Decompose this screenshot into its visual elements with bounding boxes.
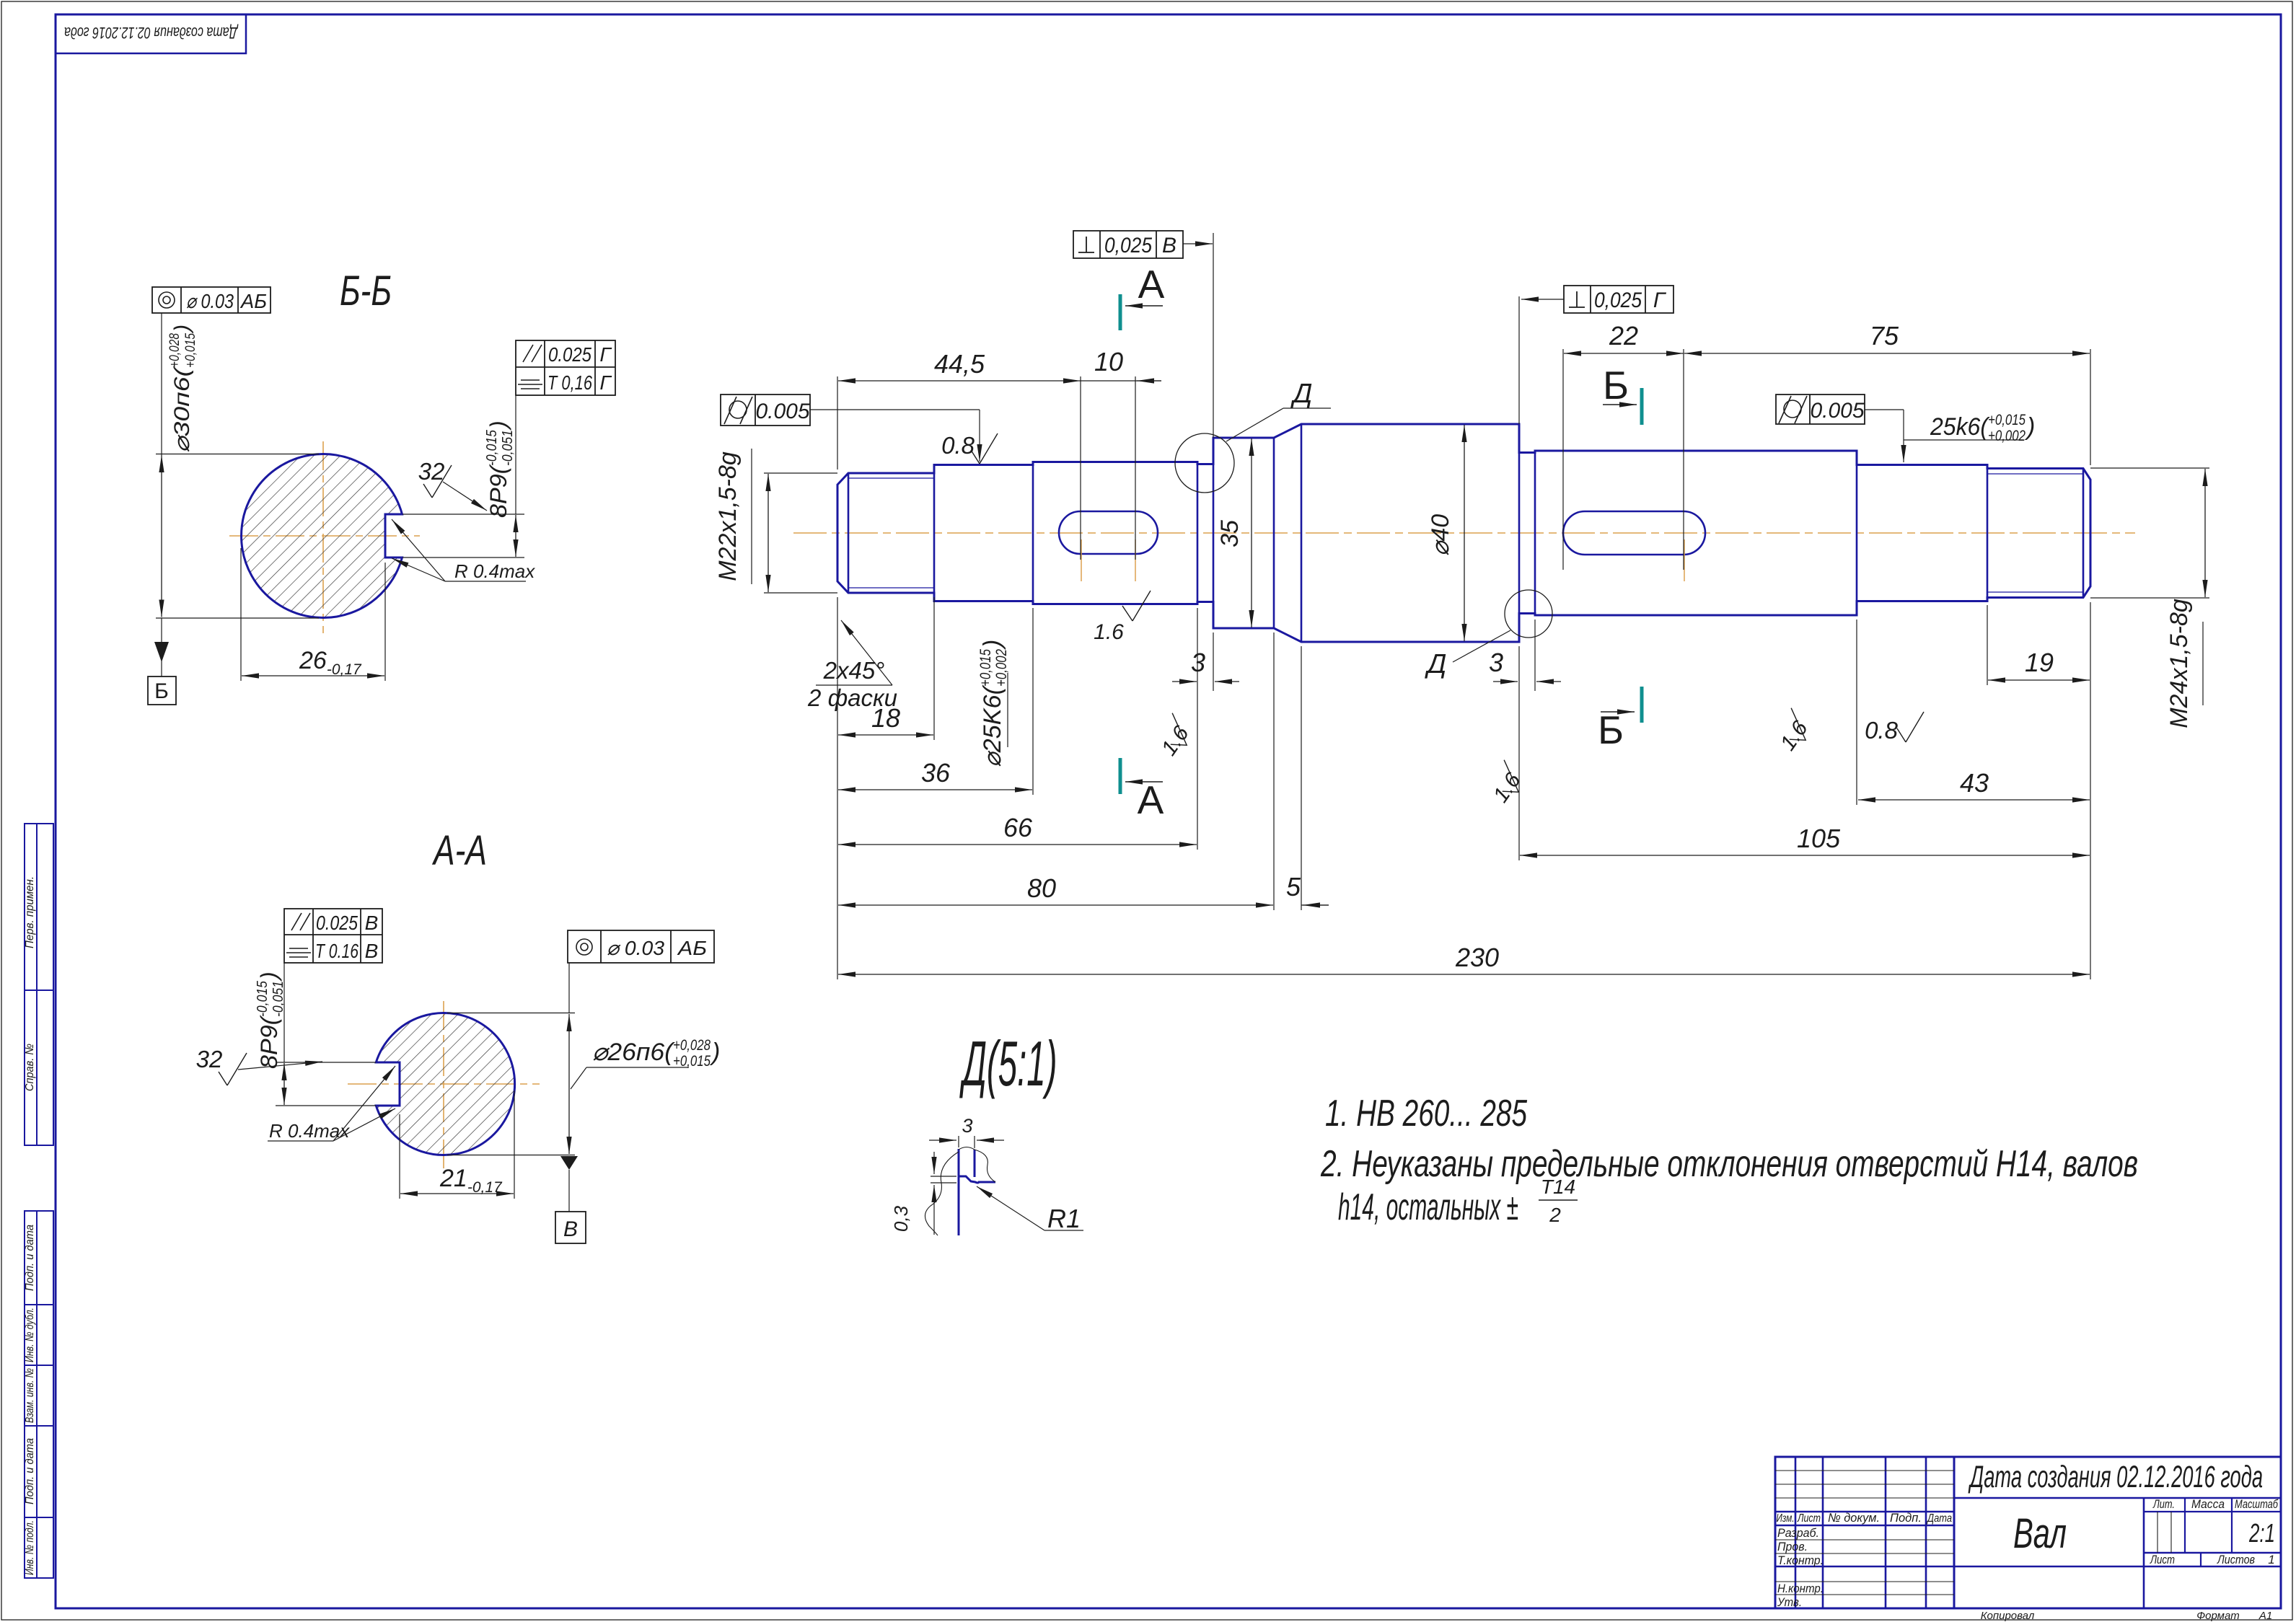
svg-text:+0,028: +0,028	[167, 333, 182, 368]
svg-text:18: 18	[871, 703, 900, 733]
svg-text:Б: Б	[1603, 363, 1629, 407]
label dia25K6 rotated	[977, 640, 1010, 767]
leader D2	[1453, 630, 1510, 662]
detail profile blue	[958, 1149, 960, 1235]
svg-text:0.025: 0.025	[316, 912, 358, 934]
svg-text:Н.контр.: Н.контр.	[1777, 1582, 1824, 1595]
svg-text:8P9(: 8P9(	[485, 463, 511, 518]
svg-text:+0,028: +0,028	[673, 1037, 711, 1054]
A-A concentricity frame	[568, 930, 714, 963]
svg-text:8P9(: 8P9(	[256, 1014, 282, 1069]
left margin field group 2	[25, 1211, 53, 1578]
svg-text:В: В	[365, 940, 379, 962]
svg-text:+0,015: +0,015	[183, 333, 198, 368]
label 25k6 with leader	[1865, 409, 1904, 410]
B-B datum box B	[148, 676, 176, 705]
keyway slot 1	[1059, 511, 1158, 554]
svg-text:-0,015: -0,015	[255, 980, 270, 1017]
svg-text:Инв. № подл.: Инв. № подл.	[24, 1520, 36, 1575]
dim 5	[1301, 904, 1329, 906]
svg-text:0.005: 0.005	[755, 400, 809, 423]
svg-text:Пров.: Пров.	[1777, 1540, 1808, 1553]
svg-text:66: 66	[1003, 813, 1033, 842]
dim 18	[838, 734, 933, 736]
dim 105	[1520, 855, 2090, 856]
B-B parallel/symmetry frames	[516, 340, 615, 395]
dim M22x1,5-8g	[767, 474, 769, 592]
svg-text:Лист: Лист	[2150, 1553, 2175, 1566]
B-B keyway width dim 8P9	[403, 514, 524, 515]
dim M24x1,5-8g	[2204, 469, 2206, 597]
svg-text:3: 3	[1489, 648, 1503, 677]
B-B datum triangle B	[154, 642, 169, 662]
dim 66	[838, 844, 1197, 845]
svg-text:19: 19	[2025, 648, 2054, 677]
dim dia40	[1464, 425, 1465, 641]
B-B centerlines	[229, 535, 420, 537]
svg-text:Подп.: Подп.	[1890, 1511, 1922, 1525]
dim 80	[838, 904, 1273, 906]
section mark A upper	[1119, 294, 1122, 330]
svg-text:0.8: 0.8	[1865, 717, 1899, 744]
svg-text:Листов: Листов	[2217, 1553, 2255, 1566]
svg-text:Д(5:1): Д(5:1)	[959, 1028, 1057, 1099]
svg-text:2x45°: 2x45°	[823, 657, 885, 684]
svg-text:Изм.: Изм.	[1777, 1512, 1795, 1525]
svg-text:3: 3	[962, 1115, 972, 1137]
svg-text:Д: Д	[1425, 649, 1447, 679]
detail dim 0,3	[931, 1176, 956, 1177]
thread minor diameter lines M22	[848, 477, 934, 479]
svg-text:⌀30п6(: ⌀30п6(	[170, 365, 194, 453]
svg-text:Б: Б	[1598, 708, 1624, 752]
svg-text:⌀ 0.03: ⌀ 0.03	[186, 290, 234, 312]
top-left document stamp box (rotated)	[56, 14, 246, 53]
slot centerline ticks	[1081, 539, 1082, 581]
A-A datum triangle V	[560, 1156, 578, 1170]
svg-text:1. НВ 260... 285: 1. НВ 260... 285	[1325, 1093, 1528, 1134]
svg-text:0,025: 0,025	[1104, 234, 1152, 257]
svg-text:25k6(: 25k6(	[1930, 413, 1990, 441]
svg-text:2:1: 2:1	[2248, 1518, 2275, 1548]
svg-text:Разраб.: Разраб.	[1777, 1526, 1819, 1540]
svg-text:Т14: Т14	[1541, 1176, 1575, 1198]
svg-text:А1: А1	[2258, 1610, 2272, 1622]
svg-text:⌀25K6(: ⌀25K6(	[979, 684, 1006, 767]
A-A label dia26p6	[592, 1037, 720, 1070]
svg-text:75: 75	[1870, 321, 1899, 351]
svg-text:32: 32	[418, 458, 445, 485]
svg-text:Инв. № дубл.: Инв. № дубл.	[24, 1308, 36, 1362]
svg-text:230: 230	[1455, 943, 1499, 972]
svg-text:0,025: 0,025	[1594, 288, 1642, 312]
roughness 1.6 on ext 2106	[1483, 760, 1529, 807]
A-A parallel/symmetry frames	[284, 909, 382, 963]
svg-text:Д: Д	[1290, 379, 1313, 409]
dim 75	[1684, 353, 2090, 354]
svg-text:Взам. инв. №: Взам. инв. №	[24, 1368, 36, 1423]
svg-text:Т.контр.: Т.контр.	[1777, 1553, 1824, 1567]
B-B section circle with keyway, hatched	[242, 454, 403, 617]
svg-text:Г: Г	[599, 343, 612, 366]
svg-text:⌀ 0.03: ⌀ 0.03	[607, 937, 664, 959]
svg-text:R1: R1	[1047, 1204, 1081, 1233]
section mark B lower	[1640, 687, 1644, 723]
svg-text:Г: Г	[1653, 288, 1667, 312]
svg-text:1.6: 1.6	[1094, 620, 1124, 644]
section mark A lower	[1119, 758, 1122, 794]
svg-text:Подп. и дата: Подп. и дата	[24, 1225, 36, 1291]
dim 44,5	[838, 380, 1081, 382]
svg-text:Перв. примен.: Перв. примен.	[24, 876, 36, 948]
svg-text:Вал: Вал	[2013, 1510, 2067, 1557]
B-B dia30p6 dimension	[156, 454, 319, 455]
svg-text:10: 10	[1094, 347, 1123, 376]
svg-text:80: 80	[1027, 873, 1056, 903]
svg-text:32: 32	[196, 1046, 223, 1072]
svg-text:-0,051: -0,051	[270, 981, 286, 1017]
svg-text:Б: Б	[154, 679, 169, 703]
svg-text:105: 105	[1797, 824, 1841, 853]
svg-text:1: 1	[2268, 1553, 2274, 1566]
detail break (wavy) lines	[925, 1152, 959, 1235]
A-A centerlines	[348, 1083, 540, 1085]
svg-text:АБ: АБ	[677, 937, 707, 959]
svg-text:Лит.: Лит.	[2152, 1497, 2175, 1511]
svg-text:Масса: Масса	[2191, 1497, 2225, 1511]
svg-text:T 0,16: T 0,16	[547, 371, 592, 394]
detail circle D1	[1175, 433, 1234, 493]
svg-text:Копировал: Копировал	[1981, 1610, 2035, 1622]
svg-text:Дата: Дата	[1926, 1512, 1952, 1525]
keyway slot 2	[1563, 511, 1705, 555]
svg-text:Дата создания 02.12.2016 года: Дата создания 02.12.2016 года	[1968, 1460, 2263, 1494]
svg-text:0,3: 0,3	[890, 1205, 912, 1232]
A-A dia26p6 dimension	[447, 1013, 575, 1014]
svg-text:43: 43	[1960, 768, 1989, 798]
dim 3 left groove	[1172, 681, 1197, 682]
svg-text:А: А	[1138, 777, 1164, 822]
svg-text:-0,015: -0,015	[484, 429, 500, 466]
left margin field group 1	[25, 824, 53, 1145]
svg-text:0.8: 0.8	[941, 432, 975, 459]
shaft outline	[837, 424, 2090, 642]
svg-text:Подп. и дата: Подп. и дата	[24, 1438, 36, 1504]
section mark B upper	[1640, 388, 1644, 425]
svg-text:-0,051: -0,051	[500, 430, 516, 466]
A-A section circle with keyway, hatched	[376, 1013, 514, 1155]
svg-text:Масштаб: Масштаб	[2235, 1497, 2279, 1511]
dim 3 right groove	[1493, 681, 1518, 682]
dim dia35	[1251, 438, 1252, 627]
svg-text:44,5: 44,5	[934, 349, 985, 379]
svg-text:⌀26п6(: ⌀26п6(	[592, 1039, 676, 1066]
A-A datum box V	[555, 1212, 586, 1243]
A-A dim 21	[399, 1114, 400, 1199]
svg-text:M22x1,5-8g: M22x1,5-8g	[714, 451, 742, 581]
svg-text:36: 36	[921, 758, 951, 788]
svg-text:0.005: 0.005	[1810, 399, 1864, 423]
detail dim 3	[974, 1136, 975, 1148]
dim 43	[1858, 799, 2090, 801]
B-B concentricity frame	[152, 287, 270, 313]
B-B label dia30p6 rotated	[167, 325, 198, 453]
svg-text:22: 22	[1609, 321, 1638, 351]
svg-text:h14, остальных ±: h14, остальных ±	[1338, 1186, 1518, 1228]
svg-text:В: В	[365, 912, 379, 934]
perp frame 0,025 G	[1564, 286, 1673, 313]
svg-text:3: 3	[1191, 648, 1205, 677]
svg-text:5: 5	[1286, 872, 1301, 902]
dim 10	[1081, 380, 1161, 382]
B-B dim 26	[240, 548, 242, 681]
dim 230	[838, 974, 2090, 975]
svg-text:Дата создания 02.12.2016 года: Дата создания 02.12.2016 года	[64, 24, 239, 42]
roughness 1.6 on ext 1660	[1151, 713, 1197, 760]
svg-text:T 0.16: T 0.16	[315, 940, 359, 962]
svg-text:А: А	[1138, 262, 1165, 307]
svg-text:+0,015: +0,015	[1988, 412, 2026, 428]
svg-text:0.025: 0.025	[548, 343, 591, 366]
runout frame 0.005 left	[721, 395, 810, 426]
step face edges	[848, 473, 850, 593]
svg-text:АБ: АБ	[239, 290, 267, 312]
svg-text:R 0.4max: R 0.4max	[454, 560, 535, 582]
svg-text:А-А: А-А	[432, 827, 487, 874]
detail circle D2	[1505, 590, 1552, 638]
svg-text:35: 35	[1216, 520, 1244, 547]
svg-text:2. Неуказаны предельные отклон: 2. Неуказаны предельные отклонения отвер…	[1320, 1143, 2138, 1185]
runout frame 0.005 right	[1776, 395, 1865, 424]
svg-text:№ докум.: № докум.	[1828, 1511, 1880, 1525]
perp frame 0,025 V	[1073, 231, 1183, 258]
svg-text:Справ. №: Справ. №	[24, 1044, 36, 1091]
extension lines	[837, 376, 838, 470]
svg-text:В: В	[1162, 234, 1176, 257]
main view centerline	[793, 532, 2135, 534]
svg-text:+0,002: +0,002	[1988, 428, 2026, 444]
svg-text:Утв.: Утв.	[1777, 1595, 1802, 1609]
svg-text:В: В	[563, 1217, 578, 1241]
title block	[1775, 1457, 2281, 1608]
svg-text:Формат: Формат	[2196, 1610, 2240, 1622]
leader D1	[1226, 408, 1283, 441]
svg-text:M24x1,5-8g: M24x1,5-8g	[2165, 599, 2193, 728]
dim 22	[1564, 353, 1684, 354]
svg-text:Г: Г	[599, 371, 612, 394]
svg-text:Лист: Лист	[1797, 1512, 1821, 1525]
svg-text:+0,015: +0,015	[977, 649, 994, 687]
svg-text:⌀40: ⌀40	[1427, 514, 1454, 556]
dim 36	[838, 789, 1032, 790]
svg-text:Б-Б: Б-Б	[340, 268, 392, 314]
A-A keyway width dim 8P9	[276, 1062, 376, 1063]
dim 19	[1988, 679, 2090, 681]
roughness 1.6 under dia30	[1770, 708, 1816, 755]
thread minor diameter lines M24	[1987, 473, 2083, 475]
svg-text:2: 2	[1549, 1204, 1561, 1226]
